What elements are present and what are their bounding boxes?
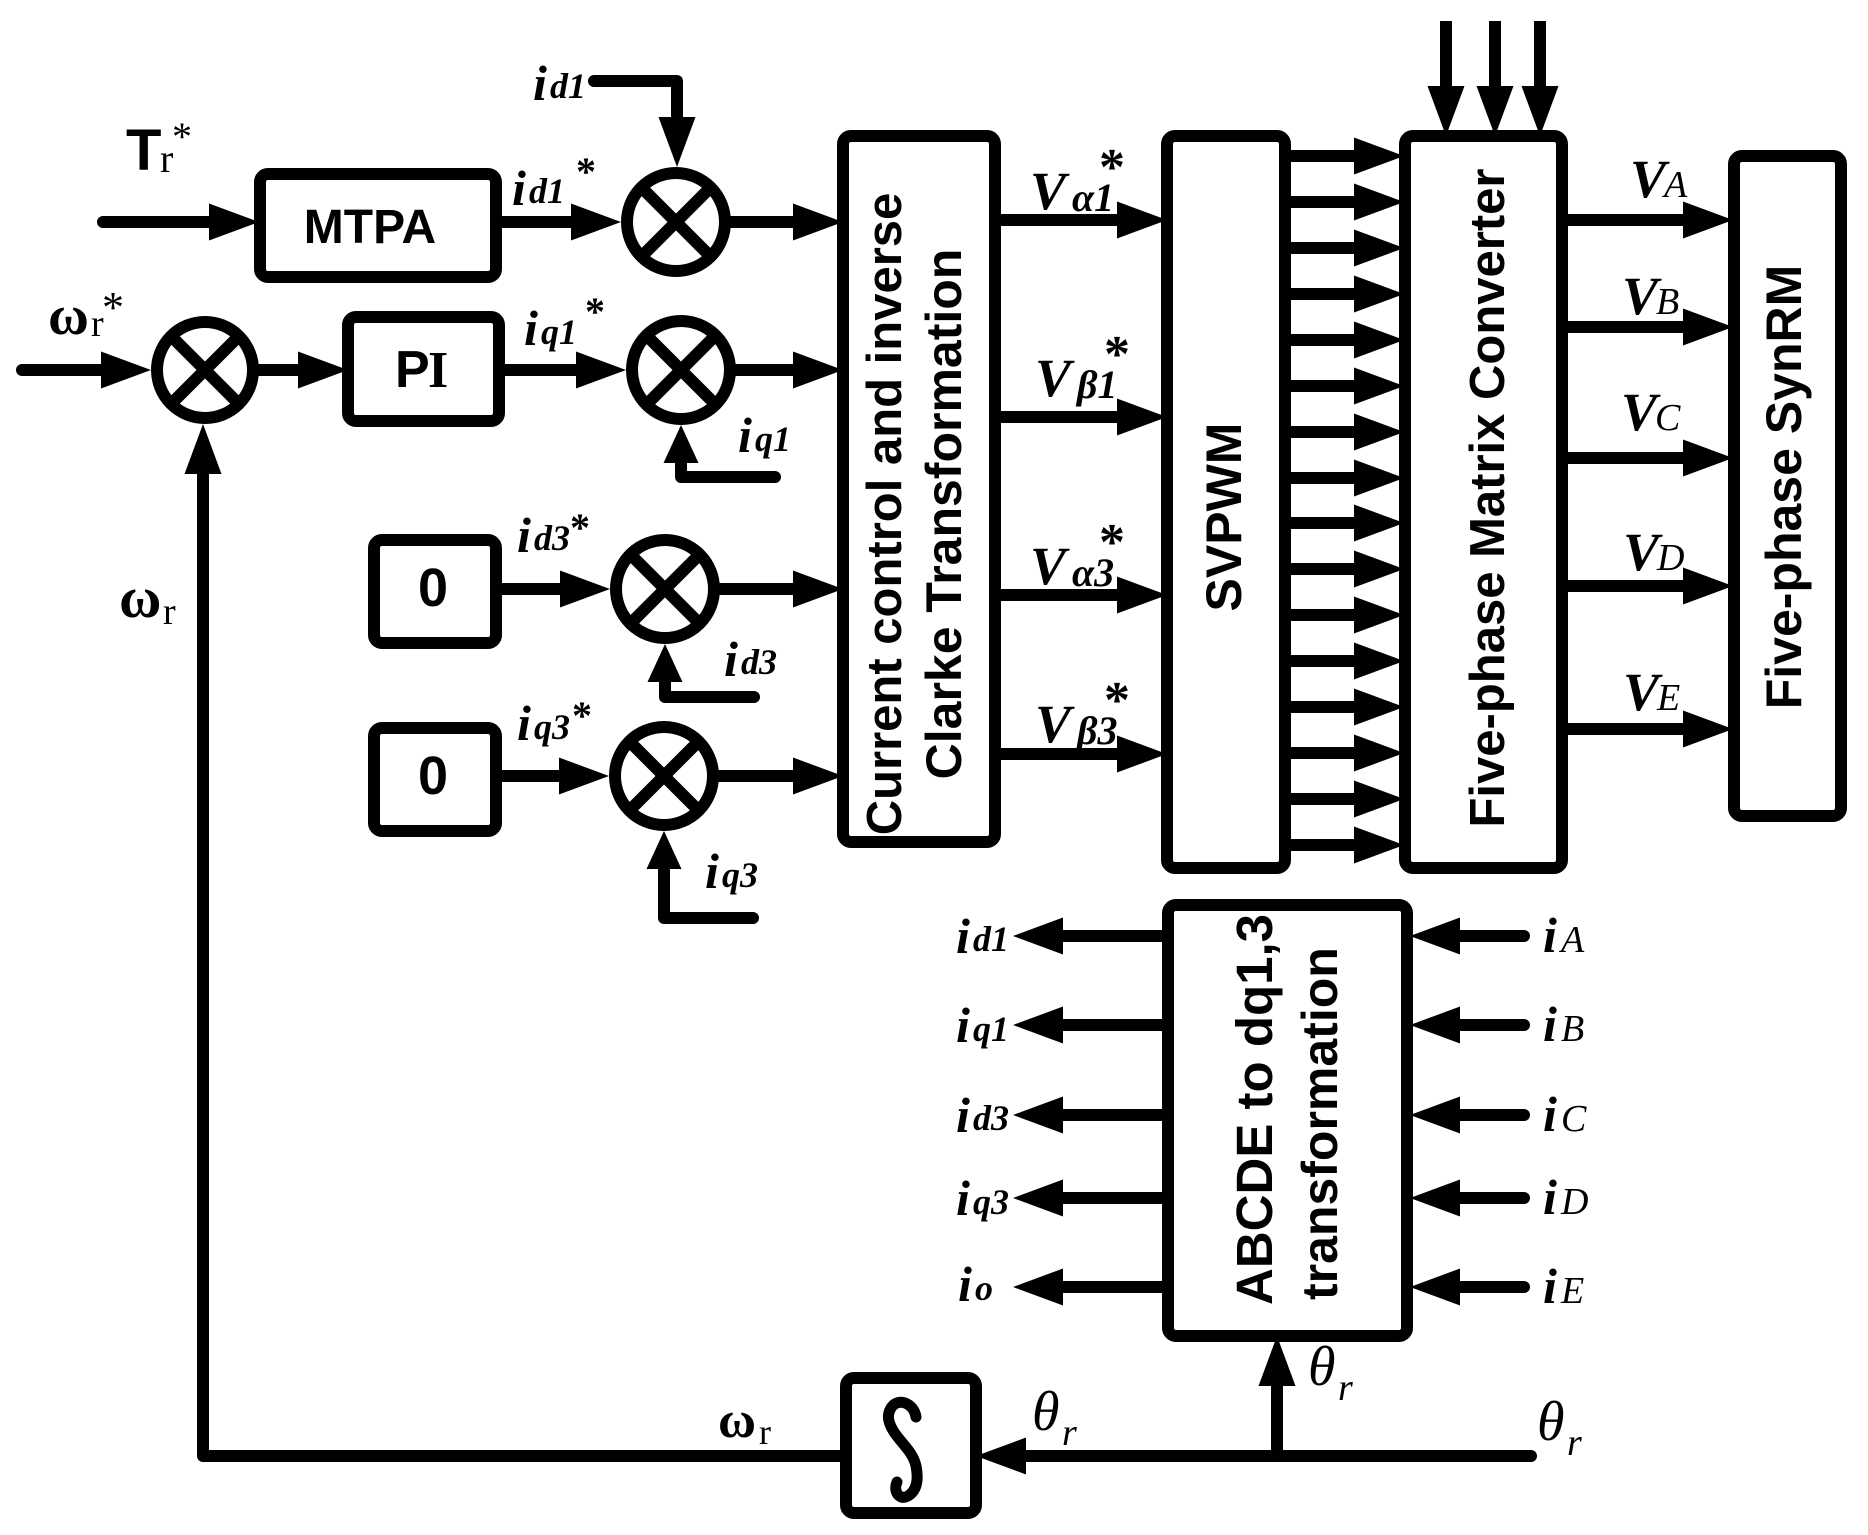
wire supply phase 1 into matrix converter [1440, 21, 1452, 112]
svg-text:V: V [1030, 536, 1070, 596]
multiplier C1 [627, 173, 725, 271]
wire gate signal 10 [1285, 563, 1380, 575]
wire iD input to ABCDE block [1434, 1192, 1524, 1204]
wire gate signal 2 [1285, 196, 1380, 208]
svg-text:T: T [126, 118, 161, 183]
svg-text:*: * [1104, 326, 1130, 383]
svg-text:i: i [524, 300, 538, 356]
svg-text:B: B [1656, 281, 1679, 323]
wire iB input to ABCDE block [1434, 1019, 1524, 1031]
svg-text:i: i [738, 407, 752, 463]
svg-text:i: i [956, 1087, 970, 1143]
svg-text:*: * [572, 693, 592, 738]
wire io output of ABCDE block [1037, 1281, 1168, 1293]
svg-text:SVPWM: SVPWM [1196, 423, 1252, 612]
svg-text:i: i [1543, 907, 1557, 963]
integrator symbol [888, 1402, 917, 1497]
block five-phase SynRM [1734, 156, 1841, 816]
wire zero1 to multiplier C3 [496, 583, 586, 595]
svg-text:C: C [1655, 397, 1681, 439]
svg-text:Five-phase Matrix Converter: Five-phase Matrix Converter [1461, 169, 1515, 828]
svg-text:V: V [1030, 161, 1070, 221]
block integrator [846, 1378, 976, 1513]
svg-text:i: i [705, 843, 719, 899]
svg-text:θ: θ [1308, 1336, 1336, 1398]
svg-text:d3: d3 [534, 518, 570, 558]
text five-phase matrix converter [1461, 169, 1515, 828]
svg-text:i: i [512, 160, 526, 216]
wire C4 to Current-control box [719, 770, 819, 782]
multiplier C2 [632, 321, 730, 419]
svg-text:i: i [956, 908, 970, 964]
wire C3 to Current-control box [720, 583, 819, 595]
svg-text:A: A [1558, 919, 1585, 961]
svg-text:d1: d1 [973, 919, 1009, 959]
wire wr feedback from integrator to summing junction [203, 448, 846, 1456]
svg-text:0: 0 [418, 746, 448, 806]
wire gate signal 12 [1285, 655, 1380, 667]
wire gate signal 8 [1285, 472, 1380, 484]
svg-text:Five-phase SynRM: Five-phase SynRM [1756, 265, 1812, 710]
wire gate signal 11 [1285, 609, 1380, 621]
text ABCDE box line 2 [1292, 947, 1348, 1300]
wire summing junction to PI [259, 364, 324, 376]
multiplier C3 [616, 540, 714, 638]
wire theta_r from encoder to integrator [1000, 1450, 1531, 1462]
svg-text:*: * [576, 149, 596, 194]
wire VE to SynRM [1562, 723, 1709, 735]
wire iq3 output of ABCDE block [1037, 1192, 1168, 1204]
wire Vb3* to SVPWM [995, 748, 1143, 760]
svg-text:B: B [1561, 1008, 1584, 1050]
summing junction S1 [157, 322, 253, 418]
svg-text:Clarke Transformation: Clarke Transformation [916, 249, 972, 780]
wire gate signal 9 [1285, 517, 1380, 529]
svg-text:i: i [1543, 996, 1557, 1052]
svg-text:Current control and inverse: Current control and inverse [858, 193, 912, 836]
text current control box line 1 [858, 193, 912, 836]
svg-text:q1: q1 [973, 1009, 1009, 1049]
svg-text:d1: d1 [550, 66, 586, 106]
svg-text:I: I [428, 342, 448, 399]
svg-text:ω: ω [718, 1392, 756, 1449]
svg-text:q1: q1 [541, 312, 577, 352]
wire supply phase 2 into matrix converter [1489, 21, 1501, 112]
wire Va1* to SVPWM [995, 214, 1143, 226]
svg-text:ABCDE to dq1,3: ABCDE to dq1,3 [1226, 914, 1283, 1305]
wire gate signal 16 [1285, 839, 1380, 851]
wire gate signal 7 [1285, 426, 1380, 438]
svg-text:r: r [1338, 1367, 1353, 1409]
block zero1 [374, 540, 496, 643]
svg-text:D: D [1560, 1181, 1588, 1223]
wire id1 output of ABCDE block [1037, 930, 1168, 942]
svg-text:i: i [1543, 1086, 1557, 1142]
svg-text:θ: θ [1032, 1381, 1060, 1443]
svg-text:MTPA: MTPA [304, 201, 436, 254]
svg-text:q1: q1 [755, 419, 791, 459]
wire PI to multiplier C2 [499, 364, 602, 376]
svg-text:q3: q3 [722, 855, 758, 895]
wire VD to SynRM [1562, 580, 1709, 592]
svg-text:E: E [1656, 677, 1680, 719]
svg-text:r: r [1567, 1422, 1582, 1464]
svg-text:D: D [1656, 537, 1684, 579]
wire id3 feedback into C3 [665, 668, 754, 697]
block current control and inverse Clarke transformation [843, 136, 995, 842]
svg-text:i: i [517, 507, 531, 563]
svg-text:i: i [1543, 1169, 1557, 1225]
wire supply phase 3 into matrix converter [1534, 21, 1546, 112]
block ABCDE to dq1,3 transformation [1168, 905, 1407, 1336]
svg-text:*: * [102, 283, 124, 332]
block five-phase matrix converter [1405, 136, 1562, 868]
wire MTPA to multiplier C1 [496, 216, 597, 228]
svg-text:ω: ω [119, 565, 161, 630]
svg-text:ω: ω [48, 285, 89, 347]
svg-text:*: * [585, 289, 605, 334]
svg-text:i: i [517, 695, 531, 751]
wire zero2 to multiplier C4 [496, 770, 585, 782]
svg-text:d3: d3 [741, 642, 777, 682]
svg-text:*: * [570, 505, 590, 550]
svg-text:i: i [956, 997, 970, 1053]
svg-text:i: i [533, 55, 547, 111]
wire gate signal 5 [1285, 334, 1380, 346]
svg-text:C: C [1561, 1098, 1587, 1140]
svg-text:q3: q3 [534, 707, 570, 747]
wire id1 top feed into C1 [594, 81, 677, 143]
wire iq1 output of ABCDE block [1037, 1019, 1168, 1031]
wire Tr* input arrow [103, 216, 235, 228]
wire gate signal 13 [1285, 701, 1380, 713]
text SVPWM [1196, 423, 1252, 612]
wire theta_r branch up into ABCDE block [1271, 1360, 1283, 1456]
wire VB to SynRM [1562, 321, 1709, 333]
wire gate signal 3 [1285, 242, 1380, 254]
text five-phase SynRM [1756, 265, 1812, 710]
text current control box line 2 [916, 249, 972, 780]
wire VC to SynRM [1562, 452, 1709, 464]
block PI [348, 317, 499, 421]
multiplier C4 [615, 727, 713, 825]
block SVPWM [1167, 136, 1285, 868]
svg-text:d3: d3 [973, 1098, 1009, 1138]
svg-text:*: * [1104, 672, 1130, 729]
svg-text:r: r [1062, 1412, 1077, 1454]
wire iA input to ABCDE block [1434, 930, 1524, 942]
svg-text:i: i [724, 631, 738, 687]
svg-text:i: i [958, 1256, 972, 1312]
wire VA to SynRM [1562, 214, 1709, 226]
wire C2 to Current-control box [736, 364, 819, 376]
wire Va3* to SVPWM [995, 589, 1143, 601]
wire gate signal 1 [1285, 150, 1380, 162]
text ABCDE box line 1 [1226, 914, 1283, 1305]
svg-text:θ: θ [1537, 1391, 1565, 1453]
wire gate signal 14 [1285, 747, 1380, 759]
svg-text:E: E [1560, 1270, 1584, 1312]
svg-text:r: r [163, 591, 176, 633]
svg-text:*: * [1099, 139, 1125, 196]
svg-text:A: A [1661, 164, 1688, 206]
svg-text:i: i [1543, 1258, 1557, 1314]
wire iq3 feedback into C4 [664, 855, 753, 918]
wire gate signal 6 [1285, 380, 1380, 392]
wire id3 output of ABCDE block [1037, 1109, 1168, 1121]
svg-text:transformation: transformation [1292, 947, 1348, 1300]
svg-text:P: P [395, 341, 430, 399]
svg-text:V: V [1035, 694, 1075, 754]
wire gate signal 4 [1285, 288, 1380, 300]
wire iE input to ABCDE block [1434, 1281, 1524, 1293]
block zero2 [374, 728, 496, 831]
svg-text:*: * [1099, 514, 1125, 571]
block MTPA [260, 174, 496, 277]
svg-text:r: r [759, 1412, 771, 1452]
svg-text:*: * [172, 114, 192, 159]
wire C1 to Current-control box [731, 216, 819, 228]
svg-text:q3: q3 [973, 1182, 1009, 1222]
svg-text:i: i [956, 1170, 970, 1226]
wire iC input to ABCDE block [1434, 1109, 1524, 1121]
wire gate signal 15 [1285, 793, 1380, 805]
svg-text:0: 0 [418, 558, 448, 618]
wire wr* input arrow [22, 364, 127, 376]
svg-text:d1: d1 [529, 171, 565, 211]
svg-text:V: V [1035, 348, 1075, 408]
wire three-phase supply arrows into matrix converter [1428, 21, 1559, 136]
svg-text:o: o [975, 1268, 993, 1308]
wire Vb1* to SVPWM [995, 411, 1143, 423]
wire iq1 feedback into C2 [681, 449, 775, 477]
